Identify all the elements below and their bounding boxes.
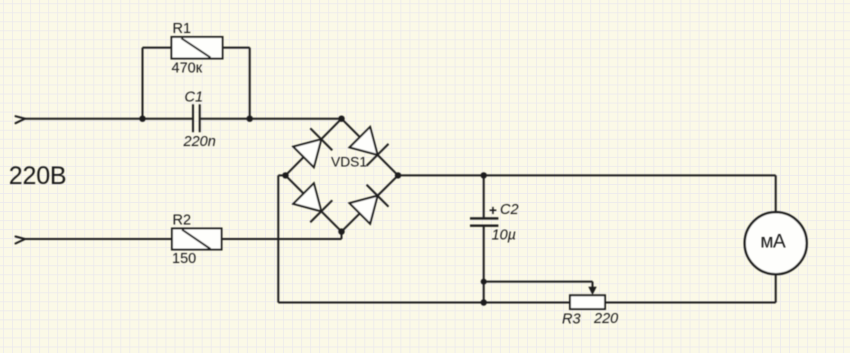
wire bottom AC line [25,238,342,240]
node bridge top [338,116,344,122]
svg-text:C1: C1 [185,89,204,105]
input arrow top (220V line) [16,116,26,123]
wire left vertical drop [277,175,279,302]
wire C2 branch lower [483,226,485,303]
wire bottom rail [278,302,775,304]
wire positive top rail [398,174,776,176]
svg-text:R1: R1 [173,21,192,37]
resistor R2 [172,229,222,250]
input arrow bottom [16,237,26,244]
node bottom rail / C2 [481,299,487,305]
svg-text:C2: C2 [500,202,519,218]
bridge arm top-left wire [286,119,342,176]
capacitor C2 [470,218,498,225]
node bridge right [395,172,401,178]
svg-text:мА: мА [760,232,786,253]
svg-text:R2: R2 [173,213,192,229]
svg-text:220: 220 [593,311,618,327]
diode D2 (top-right arm) [349,126,389,166]
node junction left of C1 [139,116,145,122]
node wiper takeoff [481,279,487,285]
diode D1 (left-top arm) [293,128,333,168]
wire meter drop [775,175,777,211]
capacitor C1 [193,104,200,132]
bridge arm top-right wire [342,119,399,176]
diode D3 (left-bottom arm) [293,183,333,223]
wire wiper horizontal [484,281,593,283]
wire stub bridge left to drop [278,174,285,176]
bridge arm bottom-left wire [286,175,342,231]
wiper arrowhead [588,287,596,295]
wire wiper vertical [592,282,594,289]
bridge arm bottom-right wire [342,175,399,231]
wire meter bottom stub [775,275,777,303]
svg-text:VDS1: VDS1 [331,155,367,170]
resistor R3 [570,295,605,309]
svg-text:R3: R3 [562,312,581,328]
svg-text:470к: 470к [172,61,203,77]
diode D4 (bottom-right arm) [349,185,389,225]
wire top AC line right of C1 [200,118,342,120]
node bridge bottom [338,228,344,234]
wire R1 branch right vertical [249,48,251,119]
svg-text:150: 150 [172,251,196,267]
node bridge left [282,172,288,178]
svg-text:10µ: 10µ [492,228,516,244]
svg-text:220В: 220В [9,162,67,190]
wire jog up to bridge bottom node [341,232,343,239]
node junction right of C1 [247,116,253,122]
meter mA [745,212,807,274]
svg-text:220n: 220n [183,134,216,150]
resistor R1 [172,37,223,59]
node at top rail / C2 [481,172,487,178]
wire R1 branch horizontal [143,47,250,49]
wire C2 branch upper [483,175,485,218]
wire top AC line left of C1 [25,118,193,120]
wire R1 branch left vertical [142,48,144,119]
svg-text:+: + [489,203,497,218]
